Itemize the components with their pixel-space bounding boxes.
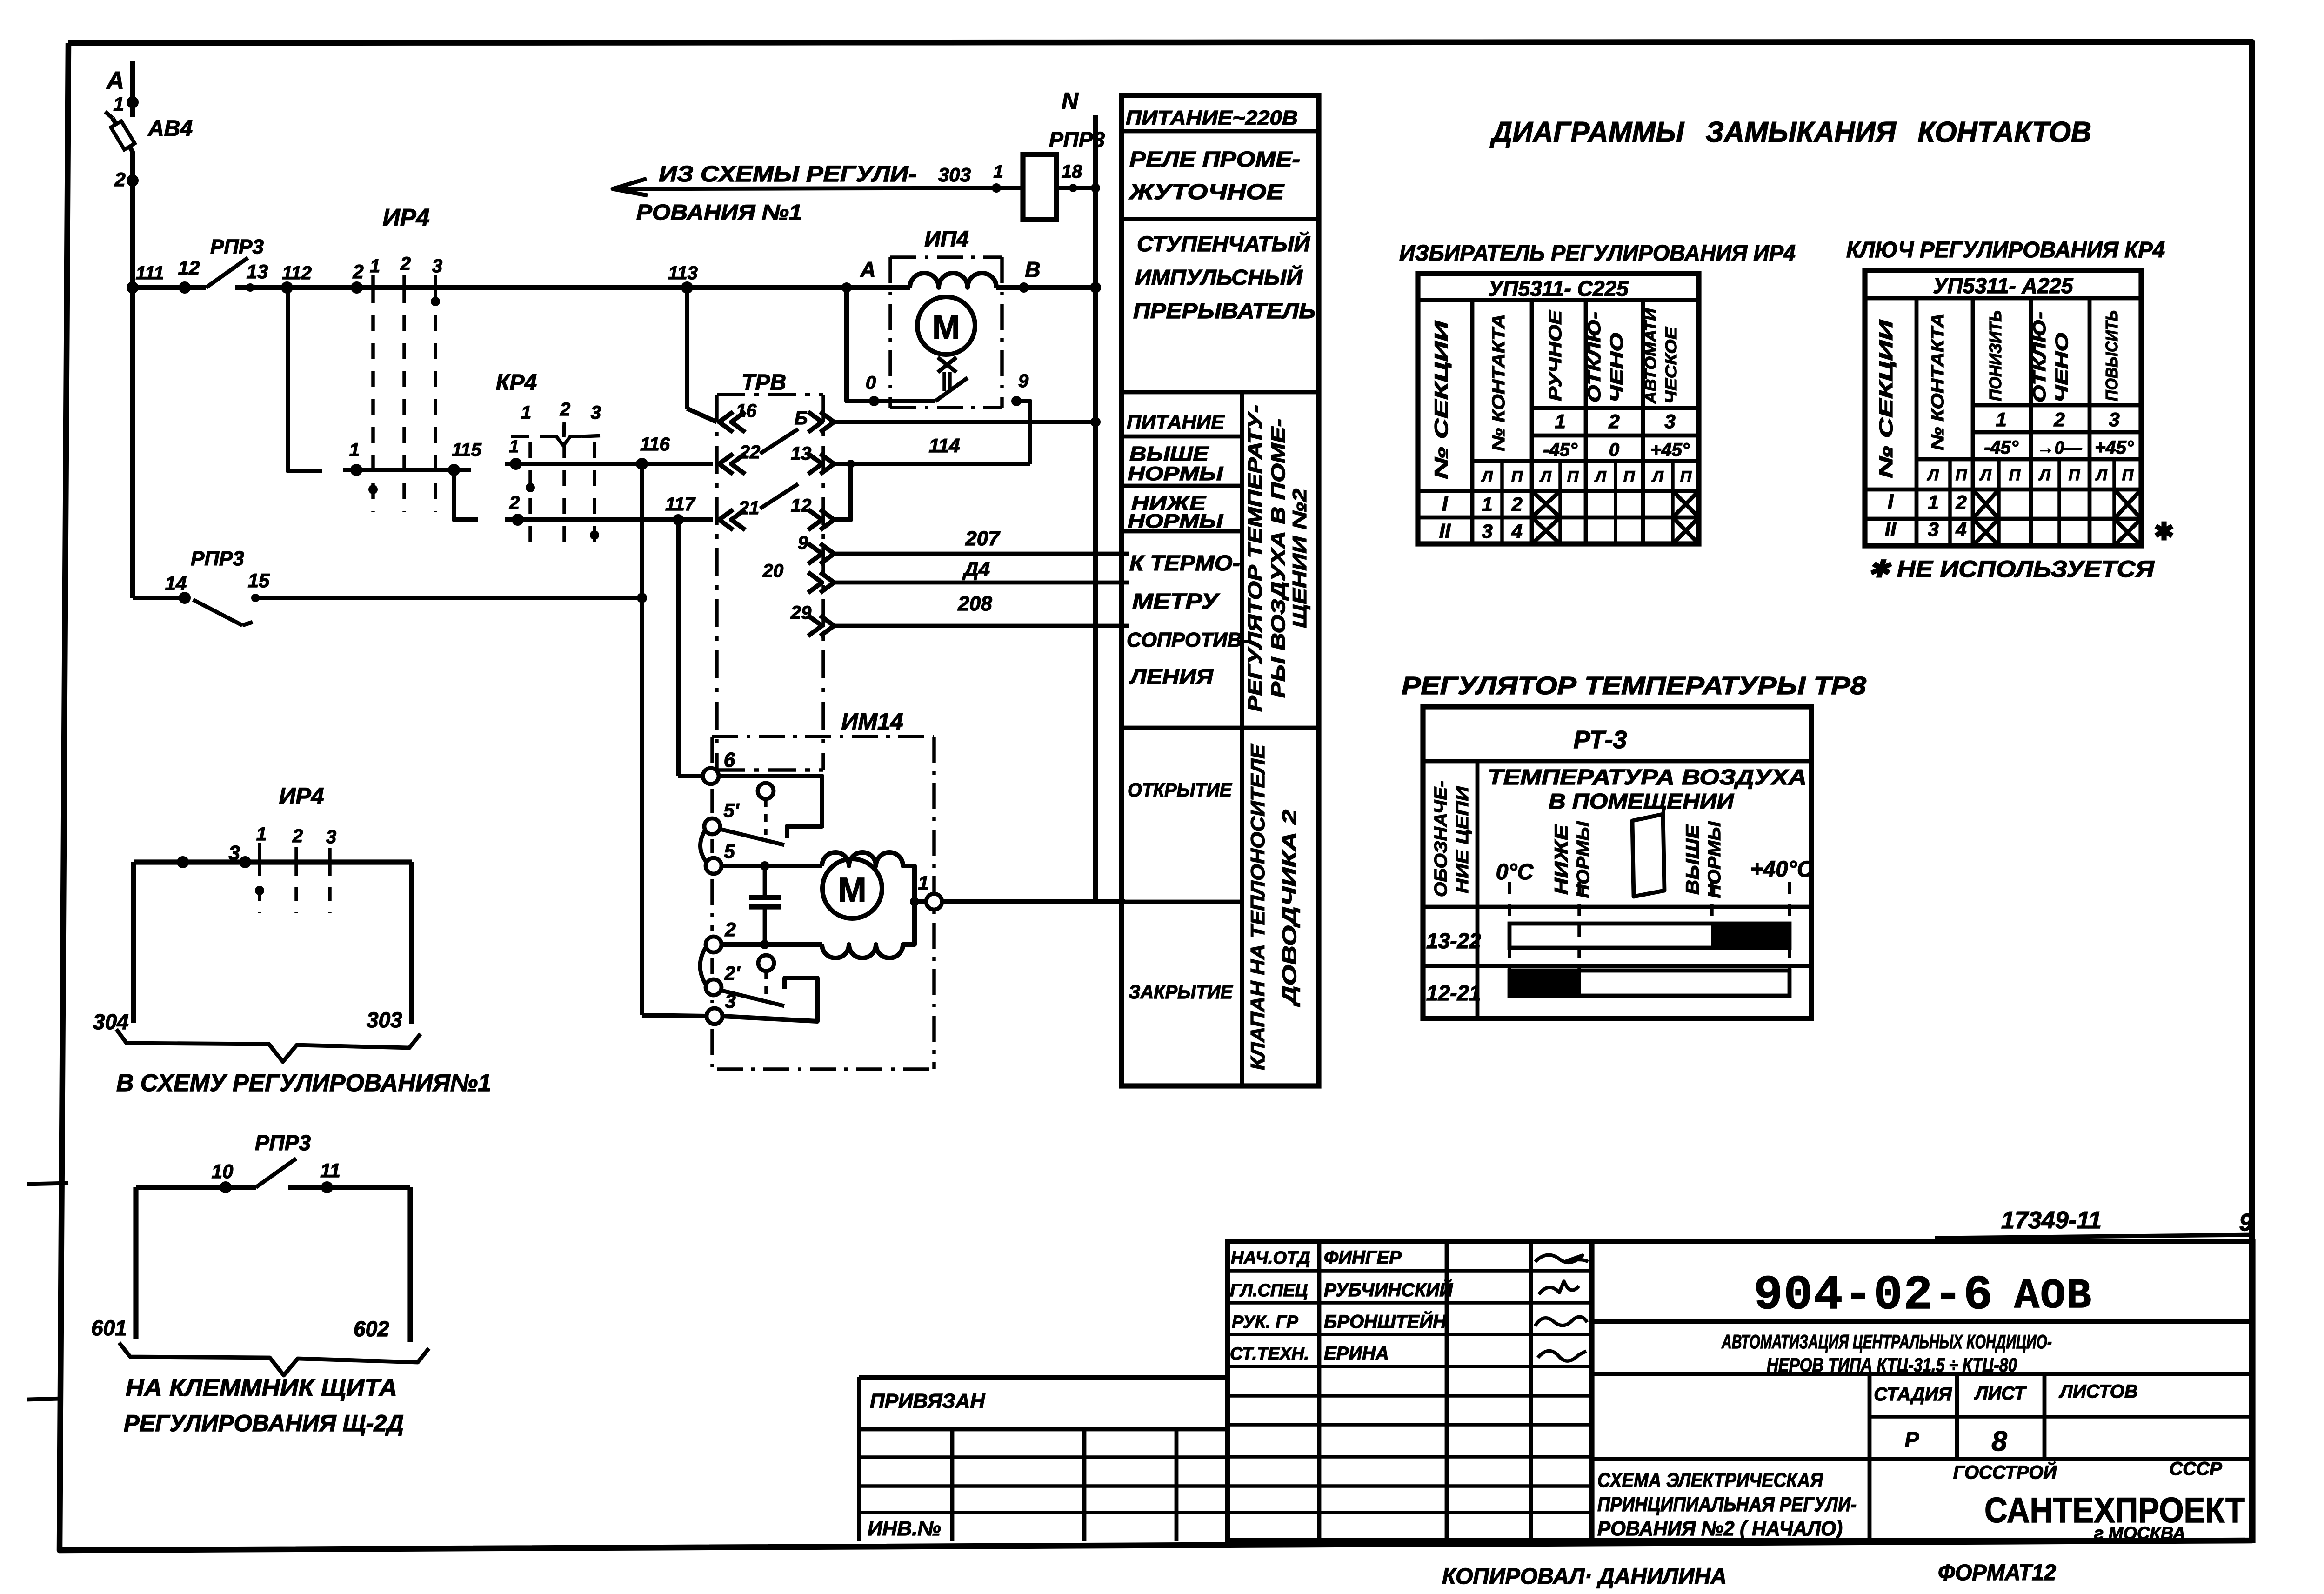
node on IR4 block bus bbox=[177, 856, 189, 868]
svg-text:1: 1 bbox=[349, 440, 360, 460]
wire 112 drop to contact row bbox=[288, 288, 322, 471]
IM14 jumper 5p-5 bbox=[700, 830, 706, 862]
wire from A-vertical to node 14 bbox=[130, 288, 135, 598]
svg-text:9: 9 bbox=[1018, 371, 1029, 391]
node 111 bbox=[127, 281, 139, 294]
svg-text:Л: Л bbox=[2038, 466, 2050, 484]
svg-text:13: 13 bbox=[791, 443, 812, 464]
svg-text:-45°: -45° bbox=[1984, 437, 2019, 458]
svg-text:1: 1 bbox=[993, 162, 1003, 182]
svg-text:ИЗБИРАТЕЛЬ РЕГУЛИРОВАНИЯ ИР4: ИЗБИРАТЕЛЬ РЕГУЛИРОВАНИЯ ИР4 bbox=[1399, 241, 1796, 266]
svg-text:207: 207 bbox=[965, 527, 1001, 550]
svg-text:Л: Л bbox=[1539, 468, 1551, 486]
svg-text:3: 3 bbox=[1482, 520, 1492, 542]
svg-text:П: П bbox=[1680, 468, 1692, 486]
node 10 bbox=[220, 1181, 232, 1193]
node 117 bbox=[673, 514, 684, 525]
IP4 cam switch blade bbox=[874, 399, 935, 403]
svg-text:СХЕМА ЭЛЕКТРИЧЕСКАЯ: СХЕМА ЭЛЕКТРИЧЕСКАЯ bbox=[1597, 1469, 1823, 1492]
svg-text:1: 1 bbox=[521, 402, 531, 423]
KR4 table outer box bbox=[1865, 270, 2141, 546]
IM14 terminal 5p bbox=[704, 818, 720, 834]
node 2 bbox=[127, 174, 139, 187]
svg-text:П: П bbox=[2069, 466, 2081, 484]
node 11 bbox=[321, 1181, 333, 1193]
IP4 terminal 9 bbox=[1011, 396, 1022, 406]
relay coil RPR3 bbox=[1023, 154, 1056, 220]
function table row line otkrytie section bbox=[1122, 726, 1319, 730]
svg-text:-45°: -45° bbox=[1543, 440, 1578, 460]
motor M of IM14 bbox=[822, 859, 882, 918]
svg-text:3: 3 bbox=[432, 256, 442, 276]
svg-text:22: 22 bbox=[739, 442, 761, 462]
svg-text:ПОВЫСИТЬ: ПОВЫСИТЬ bbox=[2102, 310, 2121, 401]
svg-text:→0—: →0— bbox=[2037, 438, 2082, 458]
function table outer box bbox=[1122, 95, 1319, 1086]
KR4 X mark ponizit L row I bbox=[1973, 489, 1999, 519]
svg-text:ПРИНЦИПИАЛЬНАЯ РЕГУЛИ-: ПРИНЦИПИАЛЬНАЯ РЕГУЛИ- bbox=[1597, 1493, 1857, 1516]
IM14 jumper 2-2p bbox=[700, 948, 705, 984]
svg-text:12-21: 12-21 bbox=[1426, 981, 1481, 1005]
svg-text:21: 21 bbox=[738, 498, 760, 518]
svg-text:ПРИВЯЗАН: ПРИВЯЗАН bbox=[870, 1390, 985, 1413]
IR4 X mark ruchnoe L row II bbox=[1532, 517, 1560, 544]
left border centering tick lower bbox=[27, 1399, 62, 1400]
svg-text:9: 9 bbox=[798, 533, 808, 553]
svg-text:Д4: Д4 bbox=[962, 558, 990, 581]
svg-text:ГОССТРОЙ: ГОССТРОЙ bbox=[1953, 1461, 2057, 1483]
svg-text:2: 2 bbox=[724, 918, 735, 940]
node 3 of IR4 block bbox=[239, 856, 251, 868]
function table row line pitanie220 bbox=[1122, 129, 1319, 134]
svg-text:НОРМЫ: НОРМЫ bbox=[1705, 821, 1724, 898]
RT3 parallelogram symbol bbox=[1632, 814, 1664, 897]
RT3 band 13-22 bbox=[1509, 924, 1790, 948]
svg-text:3: 3 bbox=[2109, 409, 2119, 430]
privyazan annex inner lines bbox=[859, 1427, 1228, 1432]
node 1 of IR4 row bbox=[350, 464, 362, 476]
svg-text:ПИТАНИЕ: ПИТАНИЕ bbox=[1127, 411, 1225, 434]
IR4 X mark avto P row II bbox=[1673, 517, 1699, 544]
svg-text:П: П bbox=[1623, 468, 1636, 486]
svg-text:29: 29 bbox=[790, 603, 812, 623]
signature squiggles bbox=[1535, 1255, 1588, 1262]
KR4 X mark povysit P row II bbox=[2114, 519, 2141, 546]
svg-text:114: 114 bbox=[929, 435, 960, 456]
svg-text:115: 115 bbox=[452, 440, 482, 460]
wire D4 stub bbox=[834, 581, 1129, 585]
svg-text:13: 13 bbox=[247, 261, 268, 282]
breaker AB4 bbox=[113, 118, 133, 153]
svg-text:II: II bbox=[1885, 518, 1897, 541]
svg-text:3: 3 bbox=[591, 402, 601, 423]
svg-text:20: 20 bbox=[762, 561, 784, 581]
svg-text:+40°С: +40°С bbox=[1750, 857, 1814, 882]
svg-text:0: 0 bbox=[866, 373, 876, 393]
IR4 block dashed line 1 bbox=[258, 862, 261, 913]
svg-text:ЛЕНИЯ: ЛЕНИЯ bbox=[1129, 664, 1214, 689]
KR4 X mark povysit P row I bbox=[2114, 489, 2141, 519]
svg-text:3: 3 bbox=[326, 827, 336, 847]
KR4 table vertical lines bbox=[1915, 298, 1919, 546]
wire 15 to 116-vertical bbox=[255, 596, 642, 600]
svg-text:2: 2 bbox=[560, 399, 570, 420]
IR4 table row line degrees bbox=[1532, 434, 1699, 438]
svg-text:А: А bbox=[860, 257, 875, 281]
TRV pin 13 plug bbox=[820, 454, 834, 474]
svg-text:ВЫШЕ: ВЫШЕ bbox=[1683, 824, 1703, 895]
svg-text:116: 116 bbox=[640, 434, 670, 455]
svg-text:РТ-3: РТ-3 bbox=[1574, 726, 1627, 754]
svg-text:ГЛ.СПЕЦ: ГЛ.СПЕЦ bbox=[1230, 1281, 1308, 1300]
svg-text:Р: Р bbox=[1905, 1427, 1919, 1452]
svg-text:БРОНШТЕЙН: БРОНШТЕЙН bbox=[1324, 1310, 1447, 1332]
svg-text:208: 208 bbox=[957, 592, 992, 615]
KR4 table lp sub verticals bbox=[1948, 459, 1952, 546]
svg-text:112: 112 bbox=[282, 263, 312, 283]
RT3 table outer box bbox=[1423, 707, 1811, 1018]
svg-text:I: I bbox=[1888, 489, 1894, 514]
svg-text:Л: Л bbox=[1979, 466, 1991, 484]
svg-text:1: 1 bbox=[918, 872, 928, 894]
wire IR4 block right vertical 303 bbox=[409, 862, 414, 1024]
svg-text:1: 1 bbox=[256, 824, 267, 844]
IM14 terminal 1 bbox=[915, 899, 927, 904]
wire B row to N bbox=[834, 420, 1095, 424]
svg-text:11: 11 bbox=[320, 1159, 341, 1181]
KR4 table row line data1 bbox=[1865, 488, 2141, 492]
wire terminal 9 down to B row bbox=[1016, 401, 1030, 422]
svg-text:АВТОМАТИ: АВТОМАТИ bbox=[1642, 308, 1660, 404]
IR4 X mark ruchnoe L row I bbox=[1532, 491, 1560, 517]
svg-text:2: 2 bbox=[400, 254, 411, 274]
title block signature columns bbox=[1317, 1241, 1322, 1540]
svg-text:А: А bbox=[106, 67, 124, 94]
title block line under code bbox=[1592, 1319, 2253, 1324]
svg-text:В ПОМЕЩЕНИИ: В ПОМЕЩЕНИИ bbox=[1549, 789, 1734, 813]
TRV pin 21 socket bbox=[719, 509, 733, 530]
wire main bus segment 112-113 bbox=[326, 285, 687, 290]
wire main bus segment 111-12 bbox=[133, 285, 206, 290]
svg-text:СТАДИЯ: СТАДИЯ bbox=[1874, 1384, 1952, 1405]
KR4 table header row line bbox=[1865, 296, 2141, 301]
svg-text:НОРМЫ: НОРМЫ bbox=[1128, 462, 1223, 484]
svg-text:РУК. ГР: РУК. ГР bbox=[1232, 1313, 1298, 1332]
svg-text:✱: ✱ bbox=[2154, 518, 2174, 545]
svg-text:1: 1 bbox=[1482, 493, 1492, 515]
svg-text:НАЧ.ОТД: НАЧ.ОТД bbox=[1231, 1248, 1310, 1268]
svg-text:113: 113 bbox=[668, 263, 698, 283]
svg-text:2: 2 bbox=[1511, 493, 1522, 515]
svg-text:2: 2 bbox=[114, 168, 125, 190]
node A on bus bbox=[841, 282, 852, 293]
svg-text:МЕТРУ: МЕТРУ bbox=[1132, 589, 1221, 613]
KR4 table row line 123 bbox=[1973, 403, 2141, 408]
svg-text:10: 10 bbox=[212, 1160, 234, 1182]
svg-text:ОБОЗНАЧЕ-: ОБОЗНАЧЕ- bbox=[1431, 781, 1451, 897]
KR4 table row line lp bbox=[1917, 457, 2141, 462]
IP4 winding on bus bbox=[910, 273, 996, 288]
TRV pin 9 plug bbox=[820, 543, 834, 564]
capacitor junction bottom bbox=[760, 940, 769, 949]
svg-text:№ КОНТАКТА: № КОНТАКТА bbox=[1489, 314, 1509, 451]
IM14 upper contact blade bbox=[720, 829, 784, 845]
svg-text:КЛАПАН НА ТЕПЛОНОСИТЕЛЕ: КЛАПАН НА ТЕПЛОНОСИТЕЛЕ bbox=[1247, 743, 1269, 1070]
svg-text:В: В bbox=[1025, 257, 1040, 281]
svg-text:117: 117 bbox=[665, 494, 696, 515]
svg-text:АВ4: АВ4 bbox=[147, 116, 193, 141]
IR4 dashed contact line 2 bbox=[402, 288, 406, 512]
svg-text:3: 3 bbox=[229, 842, 240, 864]
svg-text:4: 4 bbox=[1955, 518, 1966, 540]
svg-text:ТЕМПЕРАТУРА ВОЗДУХА: ТЕМПЕРАТУРА ВОЗДУХА bbox=[1488, 765, 1807, 789]
svg-text:904-02-6: 904-02-6 bbox=[1754, 1268, 1993, 1323]
line under doc number bbox=[1935, 1235, 2253, 1238]
svg-text:12: 12 bbox=[178, 257, 200, 279]
svg-text:18: 18 bbox=[1062, 161, 1082, 182]
svg-text:ПРЕРЫВАТЕЛЬ: ПРЕРЫВАТЕЛЬ bbox=[1133, 299, 1316, 323]
svg-text:ДИАГРАММЫ ЗАМЫКАНИЯ КОНТАКТО: ДИАГРАММЫ ЗАМЫКАНИЯ КОНТАКТОВ bbox=[1489, 116, 2091, 148]
svg-text:№ СЕКЦИИ: № СЕКЦИИ bbox=[1431, 320, 1452, 479]
svg-text:304: 304 bbox=[93, 1010, 129, 1034]
svg-text:17349-11: 17349-11 bbox=[2001, 1207, 2102, 1234]
svg-text:3: 3 bbox=[1664, 410, 1675, 432]
svg-text:РЫ ВОЗДУХА В ПОМЕ-: РЫ ВОЗДУХА В ПОМЕ- bbox=[1267, 419, 1289, 698]
svg-text:601: 601 bbox=[91, 1316, 127, 1340]
wire 207 stub bbox=[834, 552, 1129, 556]
svg-text:2: 2 bbox=[292, 826, 303, 846]
node 12 bbox=[179, 281, 191, 294]
svg-text:I: I bbox=[1442, 491, 1449, 516]
wire 115 drop to row 2 bbox=[454, 470, 478, 520]
TRV contact blade 21 bbox=[760, 484, 798, 509]
junction dot B row at N bbox=[1090, 417, 1101, 427]
svg-text:2: 2 bbox=[352, 261, 363, 282]
svg-text:602: 602 bbox=[354, 1317, 389, 1341]
svg-text:РПР3: РПР3 bbox=[255, 1131, 311, 1155]
IP4 terminal 0 bbox=[869, 396, 879, 406]
svg-text:УП5311- А225: УП5311- А225 bbox=[1933, 274, 2074, 298]
svg-text:КЛЮЧ РЕГУЛИРОВАНИЯ КР4: КЛЮЧ РЕГУЛИРОВАНИЯ КР4 bbox=[1846, 238, 2165, 262]
svg-text:N: N bbox=[1062, 88, 1079, 114]
IR4 table row line 123 bbox=[1532, 406, 1699, 410]
svg-text:Л: Л bbox=[2095, 466, 2107, 484]
IM14 dash-dot outline bbox=[712, 737, 934, 1069]
capacitor C bbox=[763, 866, 767, 897]
node 14 bbox=[179, 592, 191, 604]
TRV pin 29 plug bbox=[820, 616, 834, 636]
svg-text:2: 2 bbox=[2053, 409, 2064, 430]
svg-text:14: 14 bbox=[165, 572, 187, 594]
RT3 left column vertical bbox=[1476, 761, 1480, 1018]
function table row line nizhe bbox=[1122, 484, 1242, 488]
svg-text:В СХЕМУ РЕГУЛИРОВАНИЯ№1: В СХЕМУ РЕГУЛИРОВАНИЯ№1 bbox=[116, 1070, 491, 1097]
svg-text:3: 3 bbox=[1928, 518, 1938, 540]
svg-text:12: 12 bbox=[791, 496, 812, 516]
svg-text:8: 8 bbox=[1991, 1426, 2007, 1457]
capacitor junction top bbox=[760, 861, 769, 871]
function table inner vertical upper section bbox=[1240, 392, 1244, 728]
wire 113 branch to TRV pin 16 bbox=[685, 288, 689, 409]
node 15 bbox=[251, 594, 260, 602]
IM14 lower actuator head bbox=[758, 955, 774, 971]
svg-text:КР4: КР4 bbox=[496, 370, 537, 395]
svg-text:СТУПЕНЧАТЫЙ: СТУПЕНЧАТЫЙ bbox=[1137, 232, 1310, 256]
wire RPR3 block left vertical 601 bbox=[133, 1187, 138, 1339]
svg-text:13-22: 13-22 bbox=[1426, 929, 1481, 953]
node 115 bbox=[448, 464, 460, 476]
wire main bus segment winding-B-N bbox=[996, 285, 1095, 290]
KR4 dashed contact line 3 bbox=[593, 442, 596, 549]
IM14 wire 5 to motor bbox=[721, 864, 822, 868]
svg-text:5: 5 bbox=[724, 840, 735, 862]
wire phase A vertical upper bbox=[130, 61, 135, 117]
svg-text:1: 1 bbox=[1555, 410, 1565, 432]
svg-text:ПОНИЗИТЬ: ПОНИЗИТЬ bbox=[1986, 310, 2005, 401]
svg-text:М: М bbox=[838, 871, 867, 909]
wire main bus segment 113-A-winding bbox=[687, 285, 910, 290]
svg-text:СТ.ТЕХН.: СТ.ТЕХН. bbox=[1230, 1344, 1309, 1364]
svg-text:П: П bbox=[2009, 466, 2021, 484]
KR4 X mark ponizit L row II bbox=[1973, 519, 1999, 546]
svg-text:2': 2' bbox=[724, 962, 741, 984]
svg-text:К ТЕРМО-: К ТЕРМО- bbox=[1129, 551, 1240, 575]
IM14 upper limit contact bbox=[719, 776, 822, 838]
IM14 terminal 3 bbox=[707, 1008, 722, 1024]
wire 117 vertical down to IM14 terminal 6 bbox=[676, 520, 681, 776]
IM14 upper winding bbox=[822, 852, 915, 902]
svg-text:ЧЕСКОЕ: ЧЕСКОЕ bbox=[1663, 326, 1680, 404]
svg-text:М: М bbox=[932, 309, 960, 346]
IR4 table row line data1 bbox=[1418, 489, 1699, 493]
motor M of IP4 bbox=[917, 297, 975, 355]
svg-text:НОРМЫ: НОРМЫ bbox=[1128, 510, 1223, 532]
svg-text:ОТКЛЮ-: ОТКЛЮ- bbox=[2030, 312, 2050, 402]
svg-text:2: 2 bbox=[1608, 410, 1619, 432]
svg-text:ДОВОДЧИКА 2: ДОВОДЧИКА 2 bbox=[1278, 810, 1300, 1007]
svg-text:ИМ14: ИМ14 bbox=[841, 709, 903, 735]
KR4 dashed contact line 2 bbox=[562, 442, 566, 549]
svg-text:РОВАНИЯ №1: РОВАНИЯ №1 bbox=[636, 200, 802, 224]
svg-text:5': 5' bbox=[723, 799, 740, 821]
wire IR4 block left vertical 304 bbox=[131, 862, 136, 1023]
svg-text:1: 1 bbox=[1928, 491, 1938, 513]
node 2 on bus (IR4 feed) bbox=[351, 281, 363, 294]
KR4 bracket bbox=[511, 435, 545, 438]
svg-text:1: 1 bbox=[509, 437, 519, 456]
svg-text:НИЕ ЦЕПИ: НИЕ ЦЕПИ bbox=[1453, 786, 1472, 893]
node 116 bbox=[636, 458, 648, 470]
svg-text:АОВ: АОВ bbox=[2014, 1273, 2092, 1320]
RT3 header row line bbox=[1423, 759, 1811, 764]
title block line under project name bbox=[1592, 1372, 2253, 1376]
RT3 row line 13-22 bbox=[1423, 905, 1811, 909]
IR4 wiper dot on line 3 bbox=[431, 297, 440, 306]
IM14 terminal 2p bbox=[706, 979, 721, 995]
svg-text:1: 1 bbox=[113, 93, 124, 115]
node 113 bbox=[681, 281, 693, 294]
junction dot 116-vertical x row 14-15 bbox=[637, 593, 647, 603]
IM14 terminal 5 bbox=[706, 858, 721, 874]
TRV pin 12 plug bbox=[820, 509, 834, 530]
function table inner vertical lower section bbox=[1240, 728, 1244, 1086]
KR4 wiper dot line 1 bbox=[526, 483, 535, 492]
svg-text:ЩЕНИИ №2: ЩЕНИИ №2 bbox=[1289, 489, 1310, 628]
svg-text:ЛИСТ: ЛИСТ bbox=[1974, 1383, 2027, 1404]
svg-text:НОРМЫ: НОРМЫ bbox=[1574, 821, 1593, 898]
svg-text:ОТКРЫТИЕ: ОТКРЫТИЕ bbox=[1128, 779, 1233, 801]
IR4 block dashed line 2 bbox=[294, 862, 298, 913]
svg-text:ПИТАНИЕ~220В: ПИТАНИЕ~220В bbox=[1126, 107, 1298, 129]
IR4 table row line data2 bbox=[1418, 516, 1699, 520]
svg-text:ФОРМАТ12: ФОРМАТ12 bbox=[1938, 1561, 2056, 1585]
svg-text:✱ НЕ ИСПОЛЬЗУЕТСЯ: ✱ НЕ ИСПОЛЬЗУЕТСЯ bbox=[1868, 556, 2155, 582]
svg-text:П: П bbox=[1567, 468, 1579, 486]
svg-text:16: 16 bbox=[736, 401, 757, 421]
function table row line otkrytie-zakrytie bbox=[1122, 900, 1242, 904]
wire 114 row bbox=[834, 462, 1030, 466]
IR4 table row line lp bbox=[1472, 459, 1699, 463]
IR4 dashed contact line 1 bbox=[371, 288, 375, 512]
KR4 dashed contact line 1 bbox=[528, 442, 532, 549]
wire contact row 1-115 bbox=[343, 468, 471, 472]
wire RPR3 block top right bbox=[288, 1185, 410, 1190]
svg-text:ЕРИНА: ЕРИНА bbox=[1324, 1343, 1389, 1364]
svg-text:ИЗ СХЕМЫ РЕГУЛИ-: ИЗ СХЕМЫ РЕГУЛИ- bbox=[659, 162, 917, 187]
KR4 wiper dot line 3 bbox=[590, 530, 599, 540]
svg-text:НА КЛЕММНИК ЩИТА: НА КЛЕММНИК ЩИТА bbox=[126, 1374, 397, 1401]
contact RPR3 blade 10-11 bbox=[256, 1159, 296, 1187]
left border centering tick upper bbox=[27, 1183, 68, 1184]
privyazan annex box bbox=[857, 1377, 861, 1541]
wire terminal 1 to N and table bbox=[942, 899, 1125, 904]
function table row line vyshe bbox=[1122, 435, 1242, 439]
RT3 row line 12-21 bbox=[1423, 964, 1811, 968]
node 1 KR4 row1 bbox=[510, 458, 522, 470]
node 2 KR4 row2 bbox=[512, 514, 524, 526]
svg-text:РПР3: РПР3 bbox=[210, 235, 264, 258]
junction dot terminal 1 bbox=[910, 897, 919, 906]
svg-text:РОВАНИЯ №2 ( НАЧАЛО): РОВАНИЯ №2 ( НАЧАЛО) bbox=[1597, 1517, 1843, 1540]
svg-text:1: 1 bbox=[370, 256, 380, 276]
svg-text:ЖУТОЧНОЕ: ЖУТОЧНОЕ bbox=[1129, 180, 1285, 204]
stadiya list listov verticals bbox=[1868, 1374, 1872, 1540]
svg-text:ИР4: ИР4 bbox=[279, 783, 324, 809]
svg-text:Л: Л bbox=[1594, 468, 1606, 486]
IR4 dashed contact line 3 bbox=[434, 288, 437, 512]
svg-text:4: 4 bbox=[1511, 520, 1522, 542]
svg-text:ЛИСТОВ: ЛИСТОВ bbox=[2058, 1381, 2138, 1402]
svg-text:II: II bbox=[1439, 520, 1451, 542]
wire main bus segment 13-112 bbox=[235, 285, 326, 290]
svg-text:111: 111 bbox=[136, 263, 164, 283]
function table row line k termometru bbox=[1122, 529, 1242, 534]
svg-text:№ СЕКЦИИ: № СЕКЦИИ bbox=[1876, 319, 1897, 478]
svg-text:УП5311- С225: УП5311- С225 bbox=[1488, 276, 1629, 301]
IR4 table outer box bbox=[1418, 274, 1699, 544]
svg-text:+45°: +45° bbox=[1650, 440, 1690, 460]
IM14 lower contact blade bbox=[720, 990, 784, 1006]
svg-text:№ КОНТАКТА: № КОНТАКТА bbox=[1928, 313, 1948, 450]
TRV dash-dot outline bbox=[717, 393, 823, 396]
svg-text:Б: Б bbox=[795, 408, 808, 429]
svg-text:ЧЕНО: ЧЕНО bbox=[1607, 333, 1627, 402]
svg-text:ИП4: ИП4 bbox=[924, 227, 969, 252]
svg-text:ЗАКРЫТИЕ: ЗАКРЫТИЕ bbox=[1129, 981, 1234, 1003]
svg-text:2: 2 bbox=[509, 493, 520, 513]
contact RPR3 blade on main bus bbox=[206, 258, 248, 288]
RT3 dashed ticks bbox=[1508, 882, 1511, 996]
